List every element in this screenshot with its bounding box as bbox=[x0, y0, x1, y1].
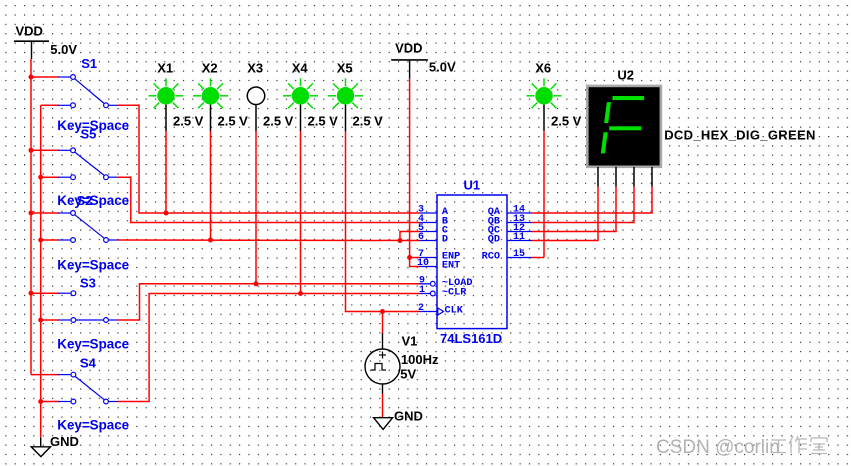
svg-text:GND: GND bbox=[50, 434, 79, 449]
svg-text:X2: X2 bbox=[202, 60, 218, 75]
svg-text:GND: GND bbox=[394, 409, 423, 424]
svg-text:RCO: RCO bbox=[482, 252, 500, 263]
svg-text:DCD_HEX_DIG_GREEN: DCD_HEX_DIG_GREEN bbox=[664, 127, 816, 142]
svg-text:100Hz: 100Hz bbox=[401, 352, 439, 367]
svg-text:2: 2 bbox=[418, 303, 424, 314]
svg-text:2.5 V: 2.5 V bbox=[551, 114, 582, 129]
svg-text:Key=Space: Key=Space bbox=[57, 258, 129, 273]
svg-text:X1: X1 bbox=[157, 60, 173, 75]
svg-text:2.5 V: 2.5 V bbox=[173, 114, 204, 129]
svg-text:X6: X6 bbox=[535, 60, 551, 75]
svg-text:S2: S2 bbox=[77, 193, 93, 208]
svg-text:2.5 V: 2.5 V bbox=[263, 114, 294, 129]
svg-text:X3: X3 bbox=[247, 60, 263, 75]
svg-text:U1: U1 bbox=[464, 178, 481, 193]
svg-text:D: D bbox=[442, 235, 448, 246]
svg-text:74LS161D: 74LS161D bbox=[440, 331, 502, 346]
svg-text:QD: QD bbox=[488, 235, 500, 246]
svg-text:ENT: ENT bbox=[442, 261, 460, 272]
svg-text:10: 10 bbox=[417, 258, 429, 269]
svg-text:2.5 V: 2.5 V bbox=[308, 114, 339, 129]
svg-text:5V: 5V bbox=[400, 366, 416, 381]
svg-text:2.5 V: 2.5 V bbox=[353, 114, 384, 129]
svg-text:VDD: VDD bbox=[16, 24, 43, 39]
svg-text:1: 1 bbox=[419, 285, 425, 296]
svg-text:CSDN @corlin: CSDN @corlin bbox=[656, 437, 780, 458]
svg-text:S3: S3 bbox=[80, 276, 96, 291]
svg-text:S1: S1 bbox=[81, 56, 97, 71]
svg-text:X4: X4 bbox=[292, 60, 309, 75]
svg-text:VDD: VDD bbox=[395, 41, 422, 56]
svg-text:5.0V: 5.0V bbox=[429, 60, 456, 75]
svg-text:11: 11 bbox=[513, 232, 525, 243]
svg-text:V1: V1 bbox=[402, 333, 418, 348]
svg-text:Key=Space: Key=Space bbox=[57, 193, 129, 208]
svg-text:Key=Space: Key=Space bbox=[57, 418, 129, 433]
svg-text:CLK: CLK bbox=[445, 306, 464, 317]
svg-text:15: 15 bbox=[513, 249, 525, 260]
svg-text:S5: S5 bbox=[81, 127, 97, 142]
svg-text:6: 6 bbox=[418, 232, 424, 243]
svg-text:U2: U2 bbox=[617, 68, 634, 83]
svg-text:Key=Space: Key=Space bbox=[57, 337, 129, 352]
svg-text:2.5 V: 2.5 V bbox=[218, 114, 249, 129]
svg-text:X5: X5 bbox=[337, 60, 353, 75]
svg-text:S4: S4 bbox=[80, 356, 97, 371]
svg-text:5.0V: 5.0V bbox=[50, 42, 77, 57]
svg-text:~CLR: ~CLR bbox=[442, 288, 467, 299]
